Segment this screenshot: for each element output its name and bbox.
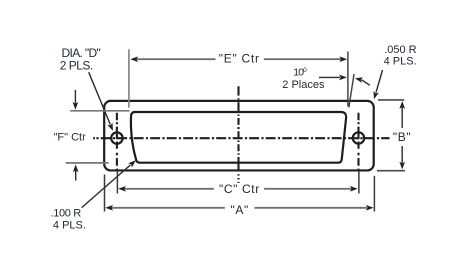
vertical centerline of part <box>237 86 239 183</box>
inner D-sub cutout opening <box>131 112 346 163</box>
svg-text:"B": "B" <box>393 130 411 144</box>
B dimension line upper <box>401 107 403 128</box>
C dim right extension line <box>358 171 360 194</box>
outer plate (panel flange outline) <box>104 101 374 171</box>
E dim right extension line <box>347 52 349 107</box>
svg-text:4 PLS.: 4 PLS. <box>53 220 86 232</box>
C dim left extension line <box>116 171 118 194</box>
C right arrowhead <box>350 186 358 192</box>
.050 R leader arrowhead <box>371 91 379 100</box>
B dim bottom extension line <box>377 170 405 172</box>
left mounting hole <box>111 132 122 143</box>
A dimension line <box>111 207 225 209</box>
C left arrowhead <box>118 186 126 192</box>
B up arrowhead <box>399 101 405 109</box>
.100 R leader <box>82 165 131 208</box>
E left arrowhead <box>130 56 138 62</box>
left bottom extension line (cutout bottom edge extended) <box>66 162 109 164</box>
svg-text:.050 R: .050 R <box>384 44 416 56</box>
svg-text:"E" Ctr: "E" Ctr <box>219 51 260 65</box>
C dimension line <box>124 188 214 190</box>
vertical centerline of left hole <box>116 113 118 172</box>
DIA D leader arrowhead <box>107 123 115 132</box>
angular dim arrow pointing right at vertical line <box>319 76 340 78</box>
E dimension line <box>136 58 216 60</box>
E dim left extension line <box>128 49 130 107</box>
A right arrowhead <box>366 205 374 211</box>
B dimension line lower <box>401 146 403 163</box>
B down arrowhead <box>399 162 405 170</box>
vertical centerline of right hole <box>357 113 359 172</box>
DIA D leader <box>89 72 111 124</box>
svg-text:2 Places: 2 Places <box>282 79 325 91</box>
svg-text:4 PLS.: 4 PLS. <box>384 56 417 68</box>
svg-text:.100 R: .100 R <box>51 208 82 220</box>
10 deg angled extension line <box>349 74 354 108</box>
left down arrow <box>74 90 76 104</box>
A dim left extension line <box>104 175 106 212</box>
svg-text:"A": "A" <box>230 203 249 217</box>
E right arrowhead <box>340 56 348 62</box>
svg-text:"F" Ctr: "F" Ctr <box>54 132 87 144</box>
horizontal centerline through holes <box>93 137 95 139</box>
right mounting hole <box>353 132 364 143</box>
B dim top extension line <box>378 99 404 101</box>
.050 R leader <box>376 70 383 93</box>
svg-text:"C" Ctr: "C" Ctr <box>219 182 260 196</box>
A left arrowhead <box>105 205 113 211</box>
angular dim arrow pointing left at angled line <box>362 80 370 86</box>
svg-text:2 PLS.: 2 PLS. <box>60 59 93 73</box>
A dim right extension line <box>373 176 375 212</box>
left top extension line (cutout top edge extended) <box>70 110 129 112</box>
left up arrow <box>75 171 77 181</box>
.100 R leader arrowhead <box>128 158 137 167</box>
